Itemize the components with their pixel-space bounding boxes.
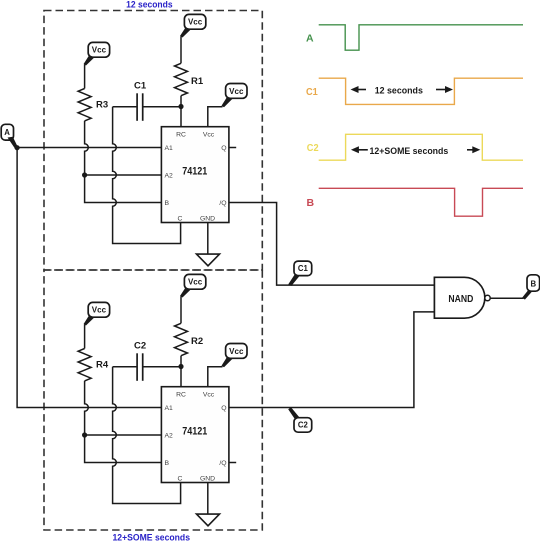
Vcc bubble above R4 [84, 302, 110, 325]
svg-text:C2: C2 [298, 421, 309, 430]
ground symbol (U1 GND) [197, 223, 220, 266]
wire: Vcc to R1 top [180, 37, 182, 64]
svg-text:NAND: NAND [448, 294, 473, 305]
svg-text:A1: A1 [165, 145, 174, 152]
wire: R1 bottom to RC pin of U1 [180, 96, 182, 127]
resistor R2 [175, 323, 188, 355]
wire: C2 left plate down (hops A1,A2,B wires) to C pin of U2 [113, 367, 181, 504]
wire: U2 Vcc pin to Vcc bubble [208, 367, 223, 387]
waveform B trace [319, 188, 523, 216]
wire: Vcc to R4 top [84, 325, 86, 349]
wire: Vcc to R3 top [84, 65, 86, 89]
svg-text:B: B [530, 280, 536, 289]
resistor R1 [175, 63, 188, 95]
capacitor C2 [113, 353, 181, 381]
svg-text:C1: C1 [134, 80, 147, 91]
svg-text:12+SOME seconds: 12+SOME seconds [370, 146, 449, 157]
svg-text:74121: 74121 [182, 426, 207, 438]
svg-text:RC: RC [176, 132, 186, 139]
svg-text:12 seconds: 12 seconds [126, 0, 173, 10]
svg-text:Vcc: Vcc [229, 87, 244, 96]
svg-text:Q: Q [221, 145, 226, 152]
waveform A trace [319, 25, 523, 50]
junction dot: R3 line at A2 wire [82, 172, 87, 177]
svg-text:B: B [165, 460, 170, 467]
Vcc bubble above R1 [180, 14, 206, 37]
svg-text:Vcc: Vcc [188, 18, 203, 27]
resistor R3 [78, 89, 91, 121]
svg-text:C2: C2 [134, 340, 146, 351]
wire: A to A1 of U1 [17, 147, 161, 149]
annotation: 12+SOME seconds with arrows [351, 146, 480, 157]
wire: /Q of U1 to NAND top input (node C1) [230, 203, 435, 286]
wire: A2 of U2 [85, 434, 162, 436]
enclosure box 2 (12+SOME seconds block) [44, 270, 262, 530]
svg-text:GND: GND [200, 215, 215, 222]
svg-text:R2: R2 [191, 336, 203, 347]
svg-text:A: A [306, 32, 314, 44]
Vcc bubble for U2 Vcc pin [222, 344, 248, 368]
svg-text:/Q: /Q [219, 460, 226, 467]
svg-text:Vcc: Vcc [203, 392, 215, 399]
svg-text:C: C [178, 475, 183, 482]
junction dot: R4 line at A2 wire [82, 432, 87, 437]
wire: R4 bottom down (hops A1 wire) to A2/B of U2 [85, 381, 162, 463]
svg-text:A1: A1 [165, 405, 174, 412]
svg-text:A2: A2 [165, 433, 174, 440]
svg-text:C2: C2 [307, 142, 319, 154]
svg-text:A: A [4, 128, 10, 137]
wire: Vcc to R2 top [180, 297, 182, 324]
svg-text:C1: C1 [298, 264, 309, 273]
svg-text:GND: GND [200, 475, 215, 482]
svg-text:R3: R3 [96, 100, 108, 111]
svg-text:R1: R1 [191, 76, 204, 87]
NAND gate U3 [434, 277, 490, 318]
svg-text:/Q: /Q [219, 200, 226, 207]
junction dot: R2/C2/RC node [178, 364, 183, 369]
svg-text:Vcc: Vcc [188, 278, 203, 287]
wire: A2 of U1 [85, 174, 162, 176]
wire: C1 left plate down (hops A1,A2,B wires) to C pin of U1 [113, 107, 181, 244]
svg-text:Q: Q [221, 405, 226, 412]
stub: Q pin U1 [230, 147, 237, 149]
svg-text:74121: 74121 [182, 166, 207, 178]
waveform C2 trace [319, 134, 523, 160]
svg-text:Vcc: Vcc [203, 132, 215, 139]
annotation: 12 seconds with arrows [351, 86, 454, 97]
svg-text:R4: R4 [96, 360, 109, 371]
svg-text:A2: A2 [165, 173, 174, 180]
wire: NAND output to B [490, 297, 523, 299]
wire: Q of U2 to NAND bottom input (node C2) [230, 312, 435, 408]
stub: /Q pin U2 [230, 462, 237, 464]
resistor R4 [78, 349, 91, 381]
svg-text:12+SOME seconds: 12+SOME seconds [113, 533, 191, 541]
node A terminal bubble [1, 124, 18, 148]
wire: A down to A1 of U2 [17, 148, 161, 408]
svg-text:Vcc: Vcc [229, 347, 244, 356]
ground symbol (U2 GND) [197, 483, 220, 526]
waveform C1 trace [319, 78, 523, 104]
capacitor C1 [113, 93, 181, 121]
svg-text:C1: C1 [306, 86, 318, 98]
wire: U1 Vcc pin to Vcc bubble [208, 107, 223, 127]
Vcc bubble above R2 [180, 274, 206, 297]
svg-text:B: B [307, 197, 315, 209]
junction dot at node A [15, 145, 20, 150]
junction dot: R1/C1/RC node [178, 104, 183, 109]
wire: R2 bottom to RC pin of U2 [180, 356, 182, 387]
op IC U1 74121 [161, 127, 229, 223]
Vcc bubble for U1 Vcc pin [222, 84, 248, 108]
svg-text:Vcc: Vcc [92, 46, 107, 55]
node C1 terminal bubble [288, 261, 311, 286]
wire: R3 bottom down (hops A1 wire) to A2/B [85, 121, 162, 203]
enclosure box 1 (12 seconds block) [44, 11, 262, 271]
op IC U2 74121 [161, 387, 229, 483]
node B terminal bubble [522, 275, 539, 300]
Vcc bubble above R3 [84, 42, 110, 65]
svg-text:C: C [178, 215, 183, 222]
svg-text:RC: RC [176, 392, 186, 399]
svg-text:Vcc: Vcc [92, 306, 107, 315]
node C2 terminal bubble [288, 407, 312, 432]
svg-text:12 seconds: 12 seconds [375, 86, 423, 97]
svg-text:B: B [165, 200, 170, 207]
